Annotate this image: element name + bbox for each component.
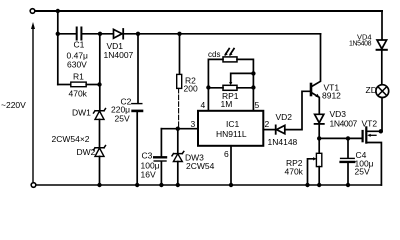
wire lamp to VT2 drain bbox=[381, 98, 382, 131]
svg-text:cds: cds bbox=[208, 50, 220, 59]
wire VD2 to VT1 base bbox=[285, 91, 310, 129]
capacitor C3 bbox=[160, 129, 162, 157]
wire RP2 wiper bbox=[308, 159, 315, 185]
svg-text:25V: 25V bbox=[115, 114, 130, 124]
wire VT1 collector bbox=[312, 34, 321, 87]
node bottom RP2 bbox=[317, 183, 321, 187]
svg-text:16V: 16V bbox=[141, 170, 156, 180]
svg-text:200: 200 bbox=[184, 84, 198, 94]
AC source arrow bbox=[32, 27, 34, 182]
svg-text:VD2: VD2 bbox=[276, 112, 293, 122]
node RP1 right bbox=[251, 85, 255, 89]
node C1 left bbox=[56, 32, 60, 36]
wire VT1 emitter bbox=[312, 93, 320, 114]
svg-text:~220V: ~220V bbox=[1, 100, 26, 110]
node top-left junction bbox=[56, 9, 60, 13]
svg-text:2: 2 bbox=[265, 119, 270, 129]
svg-text:8912: 8912 bbox=[322, 91, 341, 101]
node gate line left bbox=[317, 136, 321, 140]
potentiometer RP1 bbox=[223, 85, 237, 90]
wire sub rail bbox=[100, 33, 321, 35]
photoresistor cds bbox=[223, 57, 237, 62]
wire to C1 bbox=[58, 33, 76, 35]
svg-text:DW2: DW2 bbox=[77, 147, 96, 157]
node bottom DW3 bbox=[176, 183, 180, 187]
lamp ZD bbox=[376, 85, 389, 98]
svg-text:DW1: DW1 bbox=[72, 108, 91, 118]
wire VT2 drain lead bbox=[366, 130, 381, 132]
zener DW1 bbox=[94, 109, 106, 120]
transistor VT1 bbox=[310, 84, 313, 95]
svg-text:1N5408: 1N5408 bbox=[349, 41, 372, 48]
svg-text:1N4148: 1N4148 bbox=[268, 137, 298, 147]
wire DW2 to bottom rail bbox=[99, 156, 101, 185]
node bottom C3 bbox=[159, 183, 163, 187]
node bottom pin6 bbox=[229, 183, 233, 187]
svg-text:1M: 1M bbox=[221, 99, 233, 109]
svg-text:630V: 630V bbox=[67, 60, 87, 70]
svg-text:470k: 470k bbox=[285, 167, 304, 177]
wire gate line bbox=[319, 137, 362, 139]
node VD1 anode bbox=[98, 32, 102, 36]
zener DW3 bbox=[177, 129, 179, 154]
wire right column top bbox=[381, 11, 383, 40]
node C2 top bbox=[136, 32, 140, 36]
node bottom C4 bbox=[346, 183, 350, 187]
svg-text:1N4007: 1N4007 bbox=[330, 119, 358, 129]
wire node down from sub rail bbox=[99, 34, 101, 111]
svg-text:ZD: ZD bbox=[366, 85, 377, 95]
wire RP1 right lead bbox=[237, 87, 253, 89]
svg-text:C3: C3 bbox=[142, 151, 153, 161]
wire top rail bbox=[35, 10, 382, 12]
wire RP1 wiper bbox=[231, 73, 254, 83]
node R2 top bbox=[177, 32, 181, 36]
capacitor C2 (electrolytic) bbox=[137, 34, 139, 103]
diode VD2 bbox=[276, 125, 285, 133]
svg-text:6: 6 bbox=[224, 149, 229, 159]
wire VT2 gate lead (already gate line) bbox=[362, 137, 364, 139]
zener DW2 bbox=[94, 146, 106, 157]
wire pin6 bbox=[230, 146, 232, 185]
mosfet VT2 channel bar bbox=[365, 127, 367, 142]
svg-text:3: 3 bbox=[191, 119, 196, 129]
svg-text:IC1: IC1 bbox=[226, 119, 240, 129]
mosfet VT2 gate bar bbox=[362, 131, 364, 141]
wire VD4 to lamp bbox=[381, 50, 383, 85]
node cds right upper bbox=[251, 71, 255, 75]
wire pin3 bbox=[161, 128, 198, 130]
node VT2 drain bbox=[379, 129, 383, 133]
svg-text:VD3: VD3 bbox=[330, 109, 347, 119]
svg-text:5: 5 bbox=[255, 100, 260, 110]
wire R1 right lead bbox=[86, 84, 99, 86]
diode VD1 bbox=[114, 29, 124, 39]
node pin3/DW3/R2 bbox=[176, 127, 180, 131]
wire cds left lead bbox=[208, 59, 223, 87]
svg-text:HN911L: HN911L bbox=[216, 129, 247, 139]
wire bottom rail bbox=[36, 184, 382, 186]
svg-text:2CW54: 2CW54 bbox=[186, 161, 215, 171]
svg-text:470k: 470k bbox=[69, 89, 88, 99]
diode VD3 bbox=[315, 114, 324, 124]
wire left branch vertical bbox=[57, 11, 59, 85]
svg-text:4: 4 bbox=[201, 100, 206, 110]
top mains terminal bbox=[30, 9, 35, 14]
op IC1 box bbox=[198, 111, 263, 146]
svg-text:25V: 25V bbox=[355, 167, 370, 177]
node R1 right bbox=[97, 82, 101, 86]
wire R1 left lead bbox=[58, 84, 71, 86]
wire DW1-DW2 bbox=[99, 119, 101, 147]
svg-text:2CW54×2: 2CW54×2 bbox=[52, 134, 90, 144]
resistor R1 bbox=[71, 82, 86, 87]
diode VD4 bbox=[377, 40, 387, 50]
wire VT2 source lead bbox=[366, 143, 381, 186]
svg-text:VT2: VT2 bbox=[362, 119, 378, 129]
VT2 body arrow bbox=[369, 134, 376, 136]
wire pin4 lead bbox=[207, 88, 209, 111]
svg-text:R1: R1 bbox=[73, 72, 84, 82]
node C4 top bbox=[346, 136, 350, 140]
light arrows bbox=[224, 49, 234, 57]
node RP1 left bbox=[206, 85, 210, 89]
resistor R2 bbox=[179, 34, 181, 75]
node bottom DW2 bbox=[97, 183, 101, 187]
bottom mains terminal bbox=[31, 183, 36, 188]
potentiometer RP2 bbox=[318, 138, 320, 153]
capacitor C4 bbox=[347, 138, 349, 158]
capacitor C1 bbox=[77, 28, 82, 40]
node bottom C2 bbox=[135, 183, 139, 187]
node bottom RP2 wiper bbox=[305, 183, 309, 187]
svg-text:C1: C1 bbox=[74, 40, 85, 50]
wire pin2 bbox=[263, 129, 275, 131]
wire RP1 left lead bbox=[208, 87, 223, 89]
svg-text:1N4007: 1N4007 bbox=[104, 50, 134, 60]
wire C1 to node bbox=[81, 33, 100, 35]
wire cds right lead bbox=[237, 59, 253, 110]
